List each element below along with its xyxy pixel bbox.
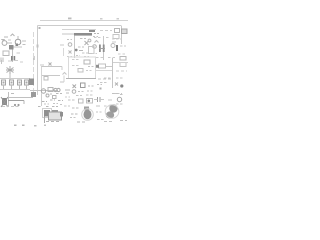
contact marks (52, 75, 58, 77)
meter circle (111, 44, 115, 48)
junction dark dot (120, 84, 123, 87)
extra clutter marks (44, 104, 63, 105)
cross mark left column (69, 51, 72, 54)
marks left of blob (71, 113, 78, 115)
component marks below (81, 83, 86, 88)
terminal box right (120, 57, 126, 61)
wire below starburst (9, 74, 11, 80)
dark blob motor M (bottom mid) (84, 110, 92, 120)
capacitor symbol ticks (98, 97, 101, 102)
dark blob contactor (44, 110, 50, 117)
dark marks on contactor (52, 110, 58, 113)
contact marks (120, 45, 126, 47)
contact dash (17, 52, 21, 54)
tick above bus 2 (100, 18, 103, 20)
switch cross (85, 41, 89, 45)
wire right vertical bus D (103, 36, 105, 60)
capacitor dark tick (116, 45, 118, 51)
marks (96, 105, 100, 107)
terminal box X1 (113, 35, 119, 39)
label marks row2 (1, 39, 11, 42)
contact marks dashed group (100, 82, 108, 84)
component marks (72, 107, 80, 109)
bottom center dashes row3 (38, 106, 58, 108)
wire horizontal mid upper (42, 66, 63, 68)
dark module box left (29, 79, 34, 86)
terminal box right 2 (120, 63, 126, 67)
motor circle (41, 89, 45, 93)
wire left vertical bus A (37, 26, 39, 96)
component row bottom wire (0, 89, 30, 91)
contactor body outline (49, 112, 62, 120)
connector block K2 (122, 29, 128, 34)
lamp L4 dot (26, 82, 28, 84)
sub-row marks (78, 90, 93, 93)
relay bar (dark) (74, 33, 92, 36)
wire horizontal mid (42, 75, 60, 77)
contact marks (80, 38, 86, 40)
dark pre-blob mark (84, 107, 89, 111)
connector block K1 (115, 29, 120, 33)
wire top bus upper (40, 20, 128, 22)
meter M2 circle (15, 39, 21, 45)
lamp L3 (18, 80, 22, 85)
wire to relay bar (62, 33, 74, 35)
dashes (64, 105, 70, 107)
wire center vertical (74, 36, 76, 59)
wire horizontal right (112, 62, 128, 64)
tick above bus 3 (117, 18, 120, 20)
lamp L3 dot (19, 82, 21, 84)
dark blob lower lobe (106, 111, 114, 118)
bus tick lower (33, 56, 35, 60)
enclosure bottom wire dashes cont. (98, 78, 112, 80)
wire upper mid horizontal (62, 29, 96, 31)
footer mark 1 (14, 125, 17, 127)
inner module box (84, 60, 90, 64)
marks right band lower (114, 93, 122, 95)
capacitor plates (dark) (11, 56, 13, 61)
wire stub vertical (1, 60, 3, 64)
inner marks right (88, 66, 94, 68)
M2 dark pointer (16, 44, 19, 47)
transistor cluster (dark) (2, 98, 7, 105)
wire horizontal row (30, 90, 58, 92)
relay contact tick left (99, 45, 101, 53)
small mark above M1 (2, 39, 4, 41)
footer mark 4 (44, 125, 46, 127)
dash (108, 99, 112, 101)
marks below-left of blob (97, 119, 104, 121)
dark edge of B1 (96, 65, 99, 68)
inner contact marks (72, 59, 80, 61)
small circle by cross (88, 39, 91, 42)
tick marks right of M2 (22, 41, 26, 45)
contact marks dashed group (104, 77, 124, 79)
contact marks row right (118, 53, 127, 55)
wire right of block (14, 46, 23, 48)
wire top bus lower (38, 25, 122, 27)
component box small (44, 77, 48, 81)
marks below blob (77, 121, 87, 123)
small component marks (53, 96, 57, 99)
junction blob on bus corner (39, 27, 41, 29)
wire stub (94, 99, 104, 101)
dash marks below (67, 56, 72, 58)
lamp circle left column (68, 43, 72, 47)
bus tick mid (37, 45, 39, 48)
wire from M1 (7, 42, 12, 44)
wire vertical (12, 50, 14, 63)
inner marks (86, 70, 92, 72)
dash marks left column (67, 39, 72, 41)
wire vertical (8, 92, 10, 106)
wire right frame vertical (121, 26, 123, 44)
blob texture ring (82, 109, 94, 121)
bottom center label marks row2 (42, 100, 63, 102)
wire drop from lower wire (23, 101, 25, 105)
wire faint right mid (96, 70, 112, 72)
small marks right of bar (93, 36, 98, 38)
wire stub left (60, 44, 64, 46)
wire faint vertical (63, 48, 65, 56)
twin circles (54, 88, 57, 91)
wire horizontal upper (8, 97, 33, 99)
contact marks (68, 99, 75, 101)
footer mark 3 (34, 125, 37, 127)
meter circle right (117, 97, 121, 101)
contact marks (116, 70, 127, 72)
label marks (4, 36, 8, 38)
contact marks row (96, 57, 116, 59)
component box (48, 88, 53, 92)
label dashes (2, 106, 20, 108)
junction dots pair (14, 104, 16, 106)
sub-row left symbol (65, 90, 70, 93)
cross mark right band (115, 83, 118, 86)
wire left vertical bus B (dashed) (33, 32, 35, 95)
caret mark (11, 34, 15, 36)
lamp L1 (2, 80, 6, 85)
wire drop at right end (61, 67, 63, 71)
component with dark dot (87, 99, 93, 104)
M2 top lead (17, 36, 19, 39)
relay box left (89, 47, 95, 54)
relay contact tick right (103, 45, 105, 53)
wire vertical bus C lower (41, 94, 43, 106)
contact marks right (112, 38, 122, 40)
wire to B1 (106, 66, 113, 68)
node junction dot on top bus (68, 18, 72, 20)
marks below left (60, 81, 64, 83)
lamp L2 (10, 80, 14, 85)
marks around meter (116, 103, 124, 105)
marks left band (97, 84, 102, 86)
enclosure bottom wire (66, 78, 96, 80)
relay crossbar (99, 48, 105, 50)
marks near vertical (11, 93, 14, 95)
bottom mid label marks (76, 94, 93, 97)
bottom center label marks row1 (46, 93, 62, 96)
enclosure box outline (69, 57, 96, 79)
bottom right label marks (112, 94, 124, 95)
marks left of blob row2 (70, 117, 77, 119)
component box B1 (99, 64, 106, 68)
dashes (104, 105, 112, 107)
wire vertical bus E (112, 58, 114, 88)
lamp circle left of relay (93, 45, 97, 49)
contact marks row extra (65, 96, 70, 98)
wire horizontal lower (darker) (8, 100, 24, 102)
dark block lower-left of bus (31, 92, 36, 97)
blob halo (105, 105, 119, 119)
dark blob transformer (bottom right) (109, 104, 117, 112)
bottom-left component row lead wire (0, 78, 30, 80)
lamp L4 (25, 80, 29, 85)
lamp L2 dot (11, 82, 13, 84)
small marks left (96, 111, 102, 113)
marks below right (88, 85, 94, 87)
wire stub (112, 41, 116, 43)
marks right of dot (79, 50, 83, 52)
switch cross small (49, 63, 52, 66)
footer mark 2 (22, 125, 25, 127)
contact marks (78, 46, 84, 48)
junction dot (75, 49, 78, 52)
marks bottom right corner (120, 120, 127, 122)
marks below (104, 121, 112, 123)
component box (3, 51, 9, 56)
label text marks (89, 29, 95, 32)
component small (79, 99, 84, 103)
inner contact marks (72, 65, 79, 67)
junction block (dark) (9, 45, 14, 50)
contact marks (82, 52, 88, 54)
wire vertical bus C (41, 66, 43, 94)
contact dashes above row (92, 53, 97, 55)
contact marks low (76, 56, 89, 57)
terminal marks below top bus right (100, 30, 112, 32)
left meter M1 circle (2, 41, 7, 46)
inner component (78, 69, 83, 73)
dot left band (100, 88, 102, 90)
caret mark mid (63, 73, 67, 75)
transistor legs cross (1, 97, 8, 107)
dark right edge (60, 112, 63, 117)
switch cross below (73, 85, 77, 89)
wire below blob (44, 117, 46, 124)
caret above relay (95, 41, 99, 43)
small circle component (46, 94, 49, 97)
contact marks near bus (40, 64, 44, 66)
ground double line (1, 58, 3, 63)
label marks above bar (94, 33, 100, 35)
contact marks (94, 37, 110, 39)
blob halo (43, 109, 52, 118)
label dashes below contactor (46, 121, 60, 123)
label marks (8, 61, 23, 63)
component row bottom leads (4, 85, 27, 90)
starburst transistor symbol (6, 66, 14, 74)
wire vertical drop mid (63, 76, 65, 83)
lamp L1 dot (3, 82, 5, 84)
sub-row symbol circle (72, 90, 76, 94)
